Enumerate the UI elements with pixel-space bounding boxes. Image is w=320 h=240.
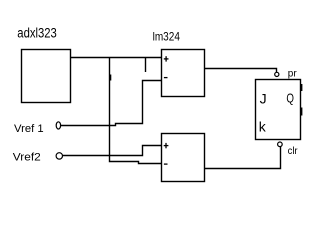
- svg-text:Q: Q: [286, 91, 294, 106]
- svg-text:Vref 1: Vref 1: [14, 123, 44, 135]
- svg-text:J: J: [260, 91, 267, 107]
- svg-text:adxl323: adxl323: [17, 26, 57, 41]
- svg-text:lm324: lm324: [153, 30, 181, 44]
- svg-text:clr: clr: [288, 146, 299, 157]
- svg-text:Vref2: Vref2: [13, 151, 41, 163]
- svg-text:pr: pr: [288, 68, 298, 79]
- svg-text:k: k: [259, 118, 267, 134]
